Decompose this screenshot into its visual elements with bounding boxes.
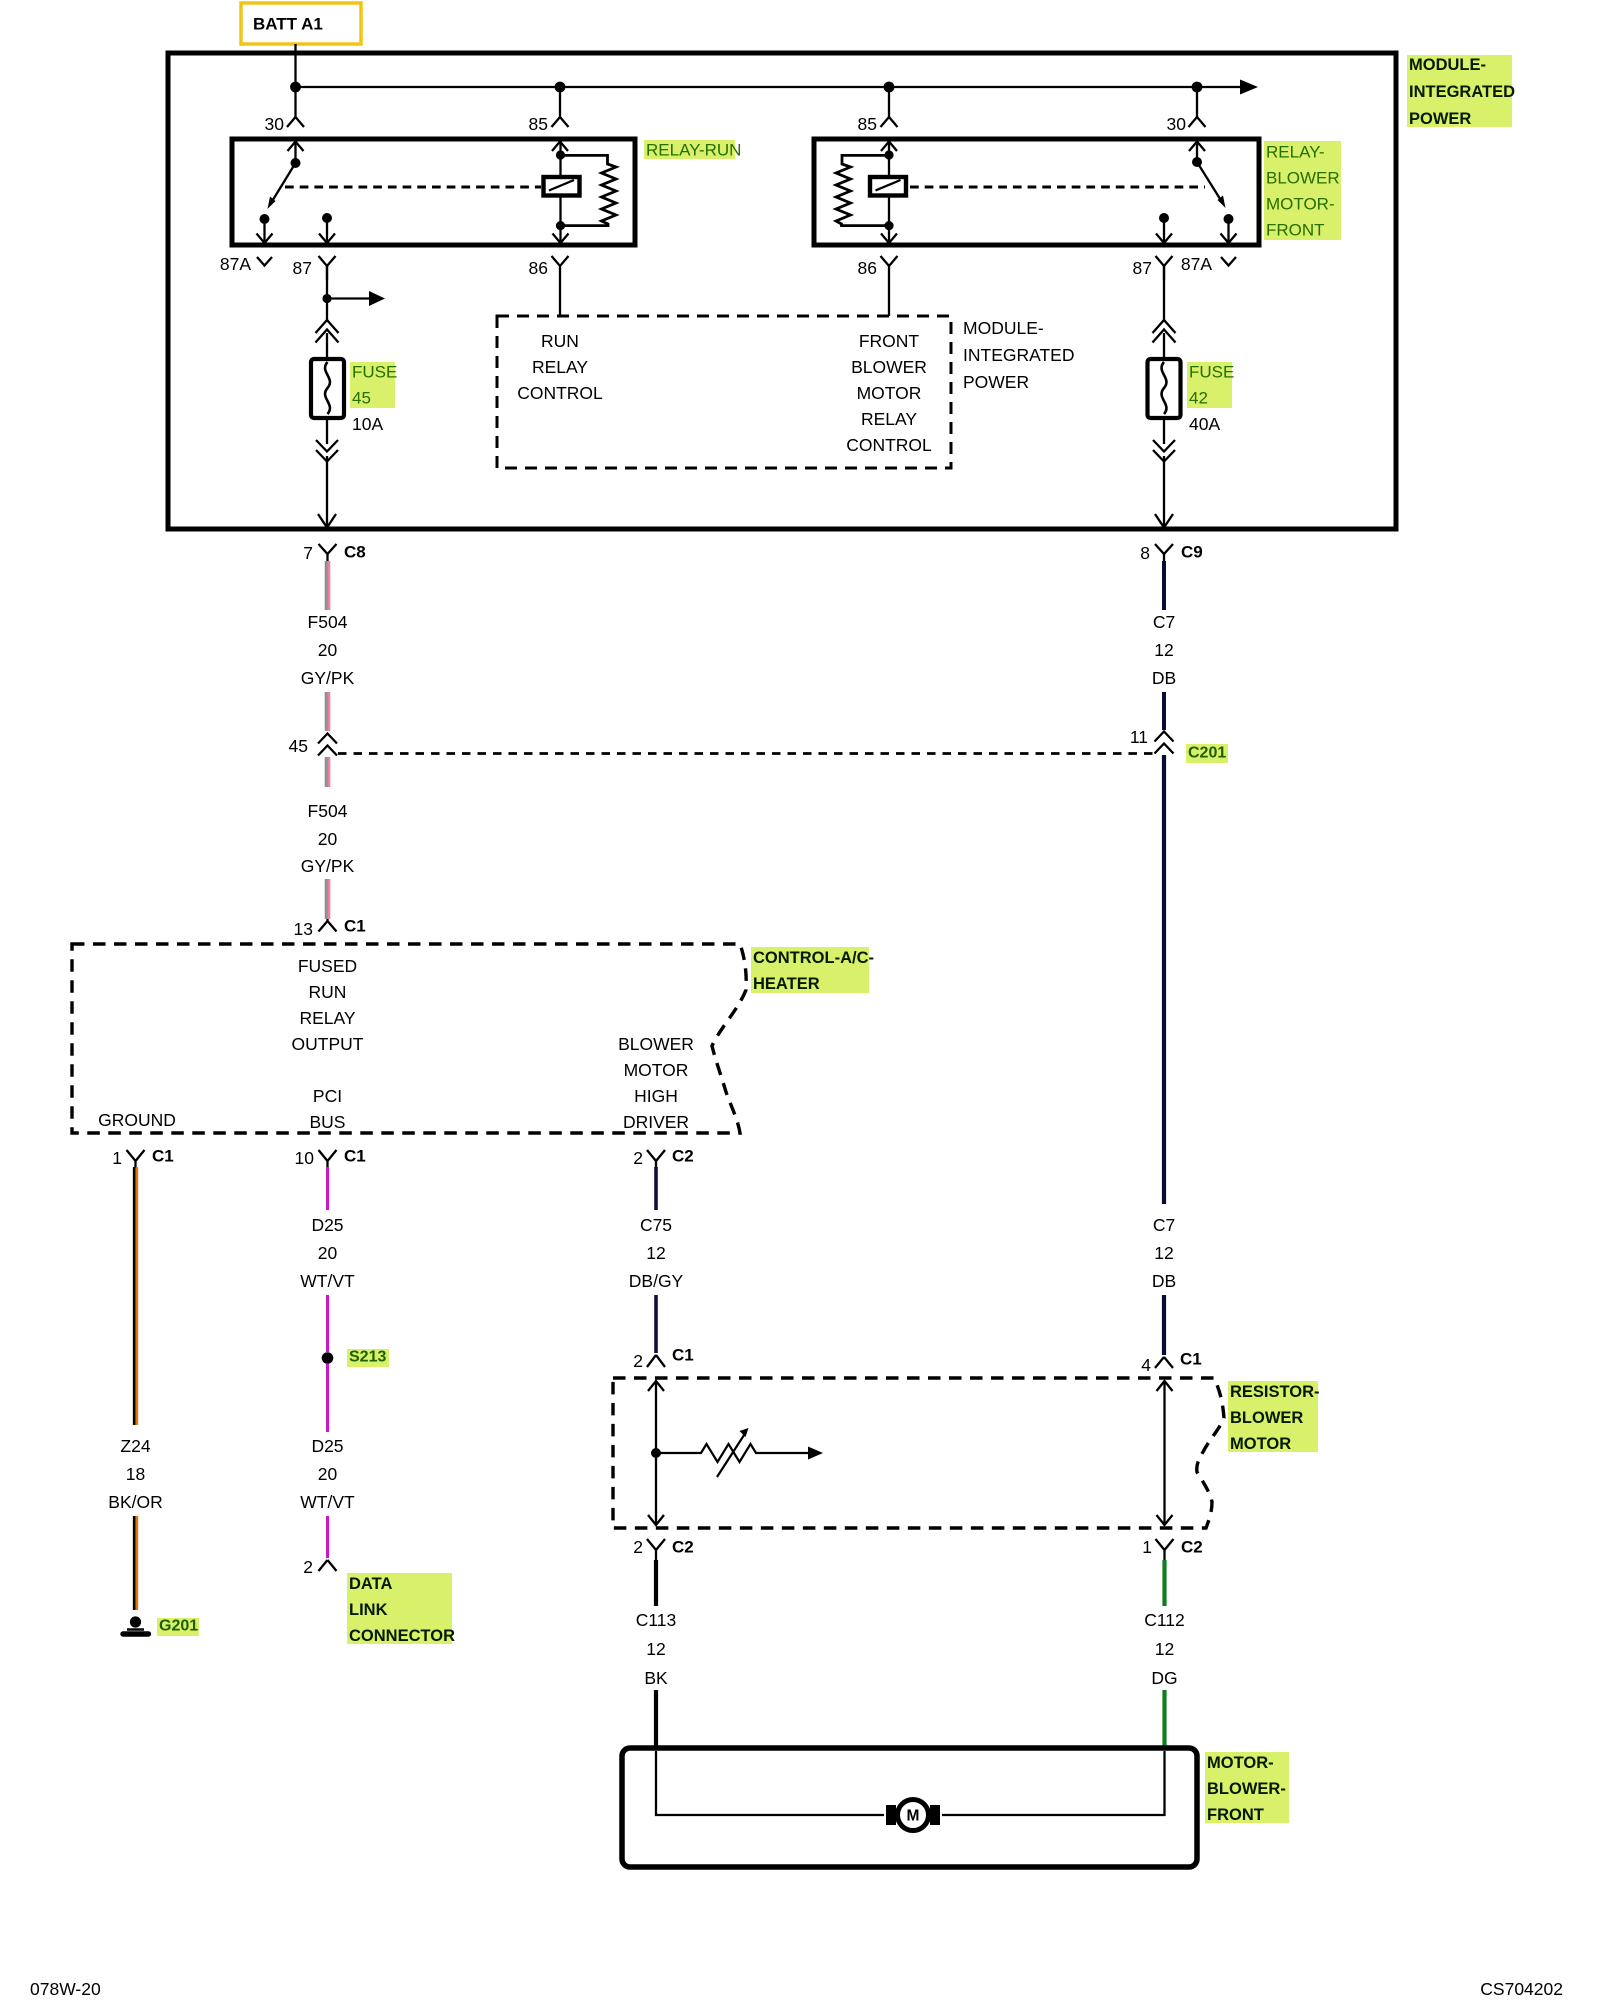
relay-run pin 30 internal arrowhead: [288, 142, 304, 152]
svg-text:C9: C9: [1181, 543, 1203, 562]
connector C2 pin 2 fork (high driver): [647, 1150, 665, 1168]
wire stub to relay-run pin 30: [294, 87, 296, 117]
svg-text:CS704202: CS704202: [1480, 1979, 1563, 1999]
wire C7 12 DB segment 2: [1162, 692, 1166, 730]
relay-blower switch common stub: [1196, 141, 1198, 162]
relay-blower 87 contact: [1159, 213, 1169, 223]
junction node at pin 30 relay-run: [290, 82, 301, 93]
svg-text:DB/GY: DB/GY: [629, 1271, 684, 1291]
svg-text:INTEGRATED: INTEGRATED: [1409, 83, 1515, 101]
relay K2 RELAY-BLOWER MOTOR-FRONT box: [814, 139, 1259, 245]
svg-text:20: 20: [318, 829, 338, 849]
svg-text:C1: C1: [1180, 1350, 1202, 1369]
wire C113 12 BK segment 1: [654, 1560, 658, 1606]
svg-text:CONNECTOR: CONNECTOR: [349, 1627, 455, 1645]
svg-text:7: 7: [303, 543, 313, 563]
relay-run switch common stub: [294, 141, 296, 163]
svg-text:20: 20: [318, 640, 338, 660]
svg-text:RESISTOR-: RESISTOR-: [1230, 1383, 1320, 1401]
svg-text:POWER: POWER: [963, 372, 1029, 392]
wire F504 20 GY/PK segment 1: [326, 561, 329, 610]
svg-text:GY/PK: GY/PK: [301, 856, 355, 876]
label FUSE 45 10A: [350, 362, 397, 434]
svg-text:RELAY-RUN: RELAY-RUN: [646, 141, 741, 160]
connector fork relay-blower pin 85: [881, 117, 898, 127]
svg-text:RELAY: RELAY: [532, 357, 588, 377]
svg-text:RELAY: RELAY: [861, 409, 917, 429]
svg-text:GY/PK: GY/PK: [301, 668, 355, 688]
connector C1 pin 2 fork (resistor): [647, 1355, 665, 1367]
svg-text:BLOWER: BLOWER: [1230, 1409, 1303, 1427]
svg-text:11: 11: [1130, 727, 1148, 747]
wire below fuse 42: [1163, 418, 1165, 444]
wire D25 20 WT/VT segment 1: [326, 1167, 329, 1210]
RESISTOR-BLOWER MOTOR dashed box: [613, 1378, 1224, 1528]
svg-text:12: 12: [1155, 1639, 1174, 1659]
svg-text:BLOWER-: BLOWER-: [1207, 1780, 1286, 1798]
junction node at pin 85 relay-run: [555, 82, 566, 93]
svg-text:DB: DB: [1152, 668, 1176, 688]
svg-text:DB: DB: [1152, 1271, 1176, 1291]
wire D25 20 WT/VT segment 3: [326, 1364, 329, 1432]
svg-text:S213: S213: [349, 1349, 386, 1366]
svg-text:D25: D25: [311, 1215, 343, 1235]
svg-text:Z24: Z24: [120, 1436, 150, 1456]
svg-text:C201: C201: [1188, 745, 1226, 762]
wire relay-blower 87 down: [1163, 266, 1165, 322]
svg-text:WT/VT: WT/VT: [300, 1492, 355, 1512]
svg-text:LINK: LINK: [349, 1601, 388, 1619]
svg-text:87A: 87A: [1181, 254, 1212, 274]
wire C113 12 BK segment 2: [654, 1690, 658, 1750]
svg-text:MOTOR-: MOTOR-: [1266, 195, 1335, 214]
relay K1 RELAY-RUN box: [232, 139, 635, 245]
relay-run switch arm (to 87A): [271, 163, 296, 203]
svg-text:CONTROL: CONTROL: [846, 435, 932, 455]
svg-text:C1: C1: [344, 1147, 366, 1166]
inline connector 45 (C201 cavity 45): [318, 734, 337, 756]
svg-text:30: 30: [265, 114, 285, 134]
svg-text:078W-20: 078W-20: [30, 1979, 101, 1999]
junction node in resistor: [651, 1448, 661, 1458]
svg-text:C1: C1: [152, 1147, 174, 1166]
svg-text:BLOWER: BLOWER: [1266, 169, 1340, 188]
connector C2 pin 2 fork (below resistor): [647, 1539, 665, 1560]
wire D25 20 WT/VT segment 4: [326, 1516, 329, 1558]
wire Z24 18 BK/OR segment 2: [134, 1516, 137, 1610]
wire stub to relay-run pin 85: [559, 87, 561, 117]
svg-text:MOTOR: MOTOR: [1230, 1435, 1291, 1453]
svg-text:12: 12: [646, 1243, 665, 1263]
svg-text:GROUND: GROUND: [98, 1110, 176, 1130]
svg-text:10A: 10A: [352, 414, 383, 434]
svg-text:13: 13: [294, 919, 313, 939]
inline connector chevrons below fuse 45: [316, 440, 338, 462]
relay-blower switch arm (to 87A): [1197, 162, 1222, 202]
svg-text:BK/OR: BK/OR: [108, 1492, 162, 1512]
module-integrated power outer box: [168, 53, 1396, 529]
wire stub to relay-blower pin 85: [888, 87, 890, 117]
svg-text:C8: C8: [344, 543, 366, 562]
relay-run coil: [544, 177, 580, 196]
inline connector chevrons above fuse 42: [1153, 320, 1176, 343]
label FUSE 42 40A: [1187, 362, 1234, 434]
relay-blower pin 30 internal arrowhead: [1189, 142, 1205, 152]
svg-text:1: 1: [1142, 1537, 1152, 1557]
inline connector C201 pin 11: [1155, 732, 1174, 754]
connector C9 pin 8 fork: [1155, 544, 1173, 562]
svg-text:POWER: POWER: [1409, 110, 1471, 128]
svg-text:C2: C2: [672, 1147, 694, 1166]
connector C1 pin 10 fork (pci): [319, 1150, 337, 1168]
wire below fuse 45: [326, 418, 328, 444]
svg-text:C7: C7: [1153, 1215, 1175, 1235]
svg-text:C2: C2: [672, 1538, 694, 1557]
svg-text:CONTROL-A/C-: CONTROL-A/C-: [753, 949, 874, 967]
wire fuse 42 to module edge: [1163, 456, 1165, 527]
svg-text:87: 87: [1133, 258, 1152, 278]
wire D25 20 WT/VT segment 2: [326, 1295, 329, 1352]
wire into fuse 45: [326, 333, 328, 359]
relay-run armature dashed link: [285, 186, 541, 189]
svg-text:HEATER: HEATER: [753, 975, 820, 993]
svg-text:F504: F504: [308, 612, 348, 632]
wire stub to relay-blower pin 30: [1196, 87, 1198, 117]
connector fork pin 2 (data link connector): [319, 1560, 337, 1571]
svg-text:2: 2: [303, 1557, 313, 1577]
CONTROL-A/C-HEATER dashed box: [72, 944, 746, 1133]
svg-text:HIGH: HIGH: [634, 1086, 678, 1106]
svg-text:OUTPUT: OUTPUT: [292, 1034, 364, 1054]
label CONTROL-A/C-HEATER: [751, 947, 874, 993]
svg-text:C2: C2: [1181, 1538, 1203, 1557]
svg-text:FRONT: FRONT: [1207, 1806, 1264, 1824]
ground G201: [123, 1616, 149, 1634]
wire relay-run 86 to control box: [559, 280, 561, 316]
svg-text:BUS: BUS: [310, 1112, 346, 1132]
svg-text:C112: C112: [1144, 1610, 1185, 1630]
connector C1 pin 13 fork: [319, 919, 337, 932]
relay-blower 87A contact: [1224, 214, 1234, 224]
wire fuse 45 to module edge: [326, 456, 328, 527]
inline connector chevrons above fuse 45: [316, 320, 339, 343]
svg-text:45: 45: [289, 736, 308, 756]
connector C2 pin 1 fork (below resistor): [1156, 1539, 1174, 1560]
wire Z24 18 BK/OR segment 1: [134, 1167, 137, 1425]
arrowhead on bus wire: [1240, 80, 1258, 95]
relay-blower coil: [870, 177, 906, 196]
internal wire to motor (left): [656, 1751, 884, 1815]
svg-text:87: 87: [293, 258, 312, 278]
svg-text:20: 20: [318, 1464, 338, 1484]
svg-text:FUSE: FUSE: [352, 363, 397, 382]
battery feed callout BATT A1: [241, 3, 361, 44]
relay-blower armature dashed link: [910, 186, 1205, 189]
wire F504 20 GY/PK segment 3: [326, 757, 329, 787]
svg-text:BATT A1: BATT A1: [253, 15, 323, 34]
svg-text:12: 12: [1154, 640, 1173, 660]
wire C112 12 DG segment 2: [1162, 1690, 1166, 1750]
svg-text:F504: F504: [308, 801, 348, 821]
svg-text:1: 1: [112, 1148, 122, 1168]
bus wire B+ across module: [296, 86, 1247, 88]
label MODULE-INTEGRATED POWER (top right): [1407, 55, 1515, 128]
svg-text:MODULE-: MODULE-: [1409, 56, 1486, 74]
svg-text:BLOWER: BLOWER: [618, 1034, 694, 1054]
svg-text:2: 2: [633, 1351, 643, 1371]
svg-text:G201: G201: [159, 1618, 198, 1635]
arrow tap to right: [327, 297, 370, 299]
relay-blower pin 85 exit arrowhead: [881, 234, 897, 244]
variable resistor element: [656, 1428, 823, 1477]
junction node at pin 30 relay-blower: [1192, 82, 1203, 93]
svg-text:87A: 87A: [220, 254, 251, 274]
svg-text:RELAY: RELAY: [299, 1008, 355, 1028]
svg-text:10: 10: [295, 1148, 315, 1168]
svg-text:86: 86: [858, 258, 877, 278]
RUN RELAY CONTROL dashed box: [497, 316, 951, 468]
svg-text:C75: C75: [640, 1215, 672, 1235]
svg-text:BK: BK: [644, 1668, 668, 1688]
MOTOR-BLOWER-FRONT box: [622, 1748, 1197, 1867]
svg-text:8: 8: [1140, 543, 1150, 563]
splice S213: [322, 1352, 334, 1364]
svg-text:FRONT: FRONT: [859, 331, 920, 351]
svg-text:RUN: RUN: [541, 331, 579, 351]
label RESISTOR-BLOWER MOTOR: [1228, 1381, 1320, 1453]
svg-text:18: 18: [126, 1464, 145, 1484]
relay-run 87A contact: [260, 214, 270, 224]
label MOTOR-BLOWER-FRONT: [1205, 1752, 1289, 1824]
resistor output leg: [1157, 1381, 1173, 1525]
resistor input leg: [648, 1381, 664, 1525]
wire F504 20 GY/PK segment 2: [326, 692, 329, 731]
svg-text:DG: DG: [1151, 1668, 1177, 1688]
connector C1 pin 1 fork (ground): [127, 1150, 145, 1168]
svg-text:WT/VT: WT/VT: [300, 1271, 355, 1291]
svg-text:FUSE: FUSE: [1189, 363, 1234, 382]
svg-text:C1: C1: [672, 1346, 694, 1365]
wire from BATT A1 down into module: [294, 44, 296, 87]
svg-text:2: 2: [633, 1148, 643, 1168]
relay-blower coil parallel resistor: [836, 155, 889, 225]
connector C1 pin 4 fork (resistor): [1155, 1357, 1173, 1368]
svg-text:C1: C1: [344, 917, 366, 936]
inline connector chevrons below fuse 42: [1153, 440, 1175, 462]
wire C7 12 DB segment 1: [1162, 561, 1166, 610]
wire C75 12 DB/GY segment 2: [654, 1295, 658, 1353]
connector C8 pin 7 fork: [319, 544, 337, 562]
fuse F45: [311, 359, 344, 418]
connector fork relay-run pin 85: [552, 117, 569, 127]
svg-text:MODULE-: MODULE-: [963, 318, 1044, 338]
svg-text:CONTROL: CONTROL: [517, 383, 603, 403]
svg-text:45: 45: [352, 389, 371, 408]
wire relay-run 87 down: [326, 266, 328, 322]
internal wire to motor (right): [942, 1751, 1165, 1815]
svg-text:D25: D25: [311, 1436, 343, 1456]
svg-text:PCI: PCI: [313, 1086, 342, 1106]
svg-text:42: 42: [1189, 389, 1208, 408]
svg-text:12: 12: [1154, 1243, 1173, 1263]
wire C7 12 DB segment 3 (long run): [1162, 755, 1166, 1204]
svg-text:DRIVER: DRIVER: [623, 1112, 689, 1132]
motor M1 blower motor: [886, 1800, 940, 1831]
svg-text:RELAY-: RELAY-: [1266, 143, 1325, 162]
svg-text:2: 2: [633, 1537, 643, 1557]
label DATA LINK CONNECTOR: [347, 1573, 455, 1645]
svg-text:30: 30: [1167, 114, 1187, 134]
svg-text:M: M: [907, 1808, 920, 1825]
relay-run coil parallel resistor: [561, 155, 617, 225]
dashed connector link 45 to 11: [338, 752, 1154, 755]
svg-text:BLOWER: BLOWER: [851, 357, 927, 377]
svg-text:20: 20: [318, 1243, 338, 1263]
svg-text:RUN: RUN: [309, 982, 347, 1002]
relay-blower coil feed pin 85: [881, 142, 897, 152]
svg-text:86: 86: [529, 258, 548, 278]
svg-text:85: 85: [858, 114, 877, 134]
svg-text:40A: 40A: [1189, 414, 1220, 434]
label RELAY-BLOWER MOTOR-FRONT: [1264, 141, 1341, 240]
svg-text:C7: C7: [1153, 612, 1175, 632]
svg-text:MOTOR: MOTOR: [857, 383, 922, 403]
wire relay-blower 86 to control box: [888, 280, 890, 316]
fuse F42: [1148, 359, 1181, 418]
relay-run pin 85 exit arrowhead: [553, 234, 569, 244]
wire C112 12 DG segment 1: [1162, 1560, 1166, 1606]
svg-text:12: 12: [646, 1639, 665, 1659]
wire C7 12 DB segment 4: [1162, 1295, 1166, 1355]
svg-text:DATA: DATA: [349, 1575, 392, 1593]
label RELAY-RUN: [644, 140, 741, 160]
wire F504 20 GY/PK segment 4: [326, 879, 329, 919]
relay-run coil feed pin 85: [552, 142, 568, 152]
svg-text:MOTOR-: MOTOR-: [1207, 1754, 1274, 1772]
junction node at pin 85 relay-blower: [884, 82, 895, 93]
svg-text:4: 4: [1141, 1355, 1151, 1375]
wire C75 12 DB/GY segment 1: [654, 1167, 658, 1210]
svg-text:INTEGRATED: INTEGRATED: [963, 345, 1075, 365]
svg-text:FUSED: FUSED: [298, 956, 357, 976]
svg-text:C113: C113: [636, 1610, 677, 1630]
connector fork relay-run pin 30: [287, 117, 304, 127]
junction node run output: [322, 294, 331, 303]
connector fork relay-blower pin 30: [1189, 117, 1206, 127]
wire into fuse 42: [1163, 333, 1165, 359]
svg-text:MOTOR: MOTOR: [624, 1060, 689, 1080]
svg-text:FRONT: FRONT: [1266, 221, 1325, 240]
svg-text:85: 85: [529, 114, 548, 134]
relay-run 87 contact: [322, 213, 332, 223]
